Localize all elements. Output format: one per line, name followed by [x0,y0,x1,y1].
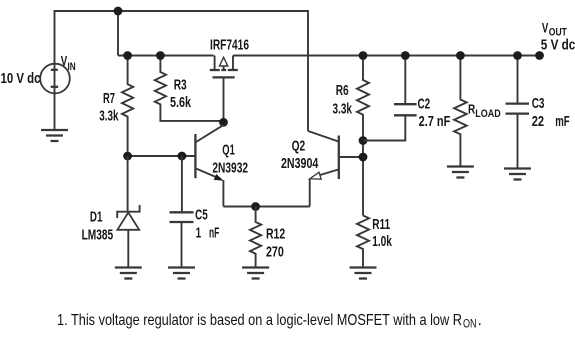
node VOUT terminal [535,51,544,60]
mosfet U1 IRF7416 [210,56,238,123]
ground VIN [41,130,68,141]
svg-text:R12: R12 [266,226,285,243]
ground R12 [242,268,269,279]
svg-text:3.3k: 3.3k [333,101,353,118]
svg-text:C5: C5 [195,207,208,224]
svg-text:C2: C2 [418,96,431,113]
capacitor C5 [170,156,194,267]
node R12 top [251,202,260,211]
svg-text:270: 270 [266,243,284,260]
Q1 collector [196,125,224,142]
transistor Q2 2N3904 [308,131,339,207]
ground C5 [168,268,195,279]
transistor Q1 2N3932 [195,125,223,207]
svg-text:1. This voltage regulator is b: 1. This voltage regulator is based on a … [57,312,462,329]
channel segment left [210,69,220,71]
wire Q2 base net [340,156,364,158]
node C3 top [513,51,522,60]
wire second rail right (MOSFET drain to VOUT) [233,55,540,57]
resistor RLOAD [454,56,467,167]
resistor R3 [155,56,222,121]
zener diode D1 LM385 [117,156,139,267]
node R6 bottom / C2 return [359,136,368,145]
drain stub [232,56,234,70]
svg-text:D1: D1 [90,209,103,226]
Q2 collector [308,131,339,142]
svg-text:2N3904: 2N3904 [281,155,319,172]
svg-text:R3: R3 [174,77,187,94]
wire top rail from VIN riser across to Q2 collector drop [55,11,309,131]
source stub [214,56,216,70]
cathode bar with zener wings [117,205,139,218]
node C2 top [401,51,410,60]
ground R11 [350,268,377,279]
ground RLOAD [447,167,474,178]
Q2 base bar [338,136,340,180]
resistor R11 [357,216,369,268]
Q1 emitter [196,169,217,178]
svg-text:V: V [542,19,549,35]
svg-text:.: . [478,312,482,329]
svg-text:R6: R6 [336,82,349,99]
node Q2 base junction [359,153,368,162]
resistor R12 [250,207,261,268]
wire second rail left (MOSFET source side) [118,55,214,57]
gate bar [213,76,235,78]
svg-text:R11: R11 [372,216,390,233]
node R3 top [156,51,165,60]
wire emitter bus [223,206,309,208]
svg-text:C3: C3 [532,95,545,112]
svg-text:5.6k: 5.6k [170,94,191,111]
wire drop from top rail to second rail [117,11,119,56]
node base/C5 junction [178,152,187,161]
channel segment right [228,69,238,71]
gate wire [223,78,225,122]
svg-text:LM385: LM385 [82,227,114,244]
plus mark [51,69,58,71]
svg-text:2.7 nF: 2.7 nF [419,113,451,130]
capacitor C3 [506,56,530,169]
svg-text:3.3k: 3.3k [99,108,119,125]
Q2 emitter arrow [310,172,321,179]
svg-text:LOAD: LOAD [475,108,500,120]
svg-text:mF: mF [555,113,569,130]
capacitor C2 [363,56,417,141]
body arrow [219,57,227,66]
svg-text:1.0k: 1.0k [372,233,392,250]
svg-text:1: 1 [196,225,202,242]
node gate / R3 / Q1 collector junction [219,118,228,127]
ground C3 [504,169,531,180]
Q2 emitter wire down [309,179,311,207]
svg-text:10 V dc: 10 V dc [1,70,41,87]
svg-text:5 V dc: 5 V dc [541,37,575,54]
resistor R7 [122,56,133,157]
ground D1 [115,268,142,279]
resistor R6 [357,56,369,216]
svg-text:Q2: Q2 [292,138,306,155]
Q1 emitter arrow [214,174,224,181]
svg-text:nF: nF [209,225,219,242]
node base/D1 junction [123,152,132,161]
minus mark [51,86,59,88]
node RLOAD top [456,51,465,60]
channel segment middle [221,69,226,71]
Q2 emitter [315,170,338,177]
node R6 top [359,51,368,60]
svg-text:IRF7416: IRF7416 [210,37,249,54]
node junction on top rail [114,7,123,16]
svg-text:2N3932: 2N3932 [212,159,248,176]
svg-text:IN: IN [68,61,76,73]
source V1 VIN [40,64,70,130]
Q1 base bar [194,134,196,178]
svg-text:Q1: Q1 [222,141,235,158]
svg-text:R7: R7 [103,90,115,107]
svg-text:22: 22 [532,113,544,130]
anode triangle [117,213,139,230]
Q1 emitter wire down [222,180,224,207]
svg-text:ON: ON [463,317,477,331]
wire Q1 base net [128,155,195,157]
node R7 top [123,51,132,60]
